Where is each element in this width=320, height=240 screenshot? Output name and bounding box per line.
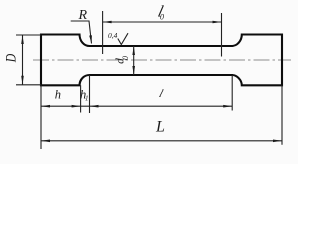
D arrows bbox=[21, 35, 24, 44]
R leader bbox=[71, 21, 92, 44]
bottom extension lines bbox=[41, 75, 282, 149]
L dimension line bbox=[41, 140, 282, 142]
svg-text:L: L bbox=[155, 119, 165, 136]
label d0 bbox=[115, 56, 131, 64]
svg-text:l: l bbox=[158, 88, 165, 100]
dimension D line bbox=[22, 35, 24, 85]
d0 dimension line bbox=[133, 46, 135, 75]
l0 gauge marks bbox=[103, 11, 222, 57]
svg-text:0: 0 bbox=[121, 56, 130, 60]
L arrows bbox=[41, 140, 50, 143]
svg-text:0,4: 0,4 bbox=[108, 31, 118, 40]
svg-text:h: h bbox=[55, 88, 61, 102]
l0 dimension line bbox=[103, 21, 222, 23]
h h1 l dimension line bbox=[41, 105, 232, 107]
svg-text:0: 0 bbox=[160, 13, 164, 22]
roughness check bbox=[118, 33, 128, 44]
centerline bbox=[33, 59, 291, 61]
arrows on h/h1/l line bbox=[41, 105, 50, 108]
d0 arrows bbox=[132, 46, 135, 55]
dimension D extension lines bbox=[16, 35, 41, 85]
l0 arrows bbox=[103, 21, 112, 24]
svg-text:1: 1 bbox=[85, 94, 89, 102]
svg-text:D: D bbox=[3, 53, 19, 63]
R leader arrow bbox=[89, 35, 92, 43]
specimen outline bbox=[41, 35, 282, 86]
